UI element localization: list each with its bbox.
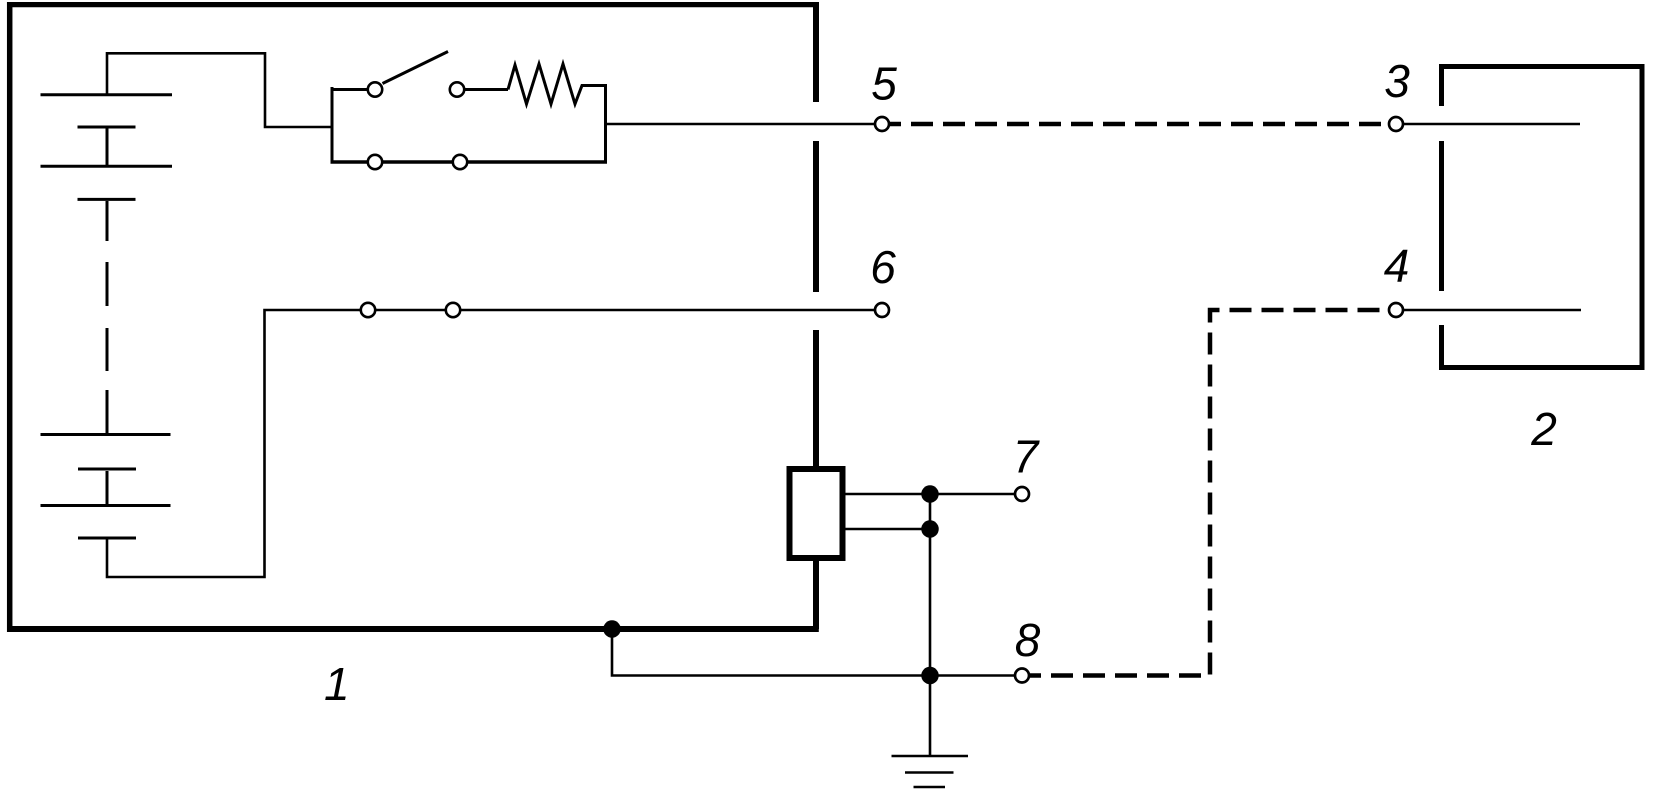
svg-text:6: 6 (870, 241, 896, 293)
svg-text:8: 8 (1015, 614, 1041, 666)
svg-text:3: 3 (1384, 55, 1410, 107)
svg-text:4: 4 (1384, 240, 1410, 292)
svg-text:1: 1 (324, 658, 350, 710)
svg-text:7: 7 (1013, 431, 1040, 483)
svg-text:2: 2 (1530, 403, 1557, 455)
svg-text:5: 5 (871, 58, 897, 110)
